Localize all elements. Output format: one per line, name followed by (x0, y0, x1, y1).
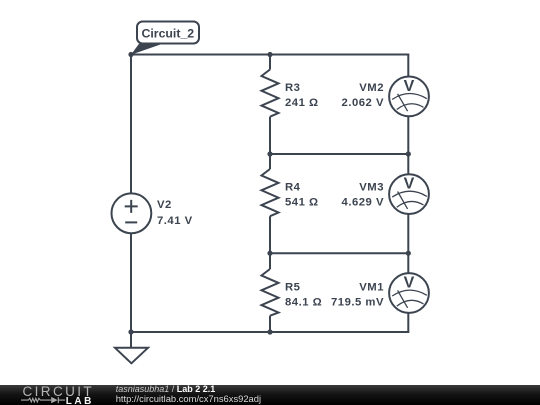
label R3 value (285, 82, 319, 109)
resistor R3 (262, 70, 279, 117)
wire VM3 bottom stub (407, 214, 409, 253)
svg-text:541 Ω: 541 Ω (285, 197, 319, 209)
svg-text:R3: R3 (285, 82, 300, 94)
svg-text:LAB: LAB (66, 396, 94, 405)
wire R3 bottom stub (269, 117, 271, 154)
footer logo CIRCUIT (23, 384, 95, 399)
wire middle rail 1 (between row1 and row2) (270, 153, 408, 155)
voltmeter VM2 (389, 77, 429, 117)
wire VM3 top stub (407, 154, 409, 174)
svg-text:2.062 V: 2.062 V (342, 97, 384, 109)
svg-text:84.1 Ω: 84.1 Ω (285, 297, 322, 309)
junction node R3/R4 rail left (267, 151, 272, 156)
footer username / title (116, 384, 216, 394)
svg-text:VM3: VM3 (359, 182, 384, 194)
wire bottom rail (131, 331, 409, 333)
label VM1 value (331, 282, 384, 309)
svg-text:R5: R5 (285, 282, 300, 294)
footer bar (0, 385, 540, 405)
wire middle rail 2 (between row2 and row3) (270, 252, 408, 254)
svg-text:VM2: VM2 (359, 82, 384, 94)
svg-text:R4: R4 (285, 182, 301, 194)
resistor R4 (262, 169, 279, 216)
svg-text:V: V (404, 78, 415, 95)
svg-text:V: V (404, 176, 415, 193)
svg-text:719.5 mV: 719.5 mV (331, 297, 384, 309)
wire VM2 bottom stub (407, 116, 409, 154)
svg-text:Circuit_2: Circuit_2 (142, 27, 195, 41)
junction node R3 top (267, 52, 272, 57)
junction node ground/bottom-left (128, 329, 133, 334)
junction node VM3/VM1 rail right (406, 251, 411, 256)
wire R4 bottom stub (269, 216, 271, 253)
label R5 value (285, 282, 322, 309)
voltmeter VM1 (389, 273, 429, 313)
svg-text:VM1: VM1 (359, 282, 384, 294)
svg-text:7.41 V: 7.41 V (157, 215, 193, 227)
junction node top-left (128, 52, 133, 57)
footer logo resistor-diode glyph (21, 397, 65, 403)
wire VM2 top stub (407, 55, 409, 77)
wire R5 bottom stub (269, 316, 271, 332)
wire ground stub (130, 332, 132, 348)
svg-text:4.629 V: 4.629 V (342, 197, 384, 209)
voltage source V2 (111, 193, 151, 233)
svg-text:241 Ω: 241 Ω (285, 97, 319, 109)
wire R3 top stub (269, 55, 271, 70)
svg-text:http://circuitlab.com/cx7ns6xs: http://circuitlab.com/cx7ns6xs92adj (116, 393, 261, 404)
resistor R5 (262, 269, 279, 316)
svg-text:V: V (404, 275, 415, 292)
wire VM1 bottom stub (407, 313, 409, 332)
wire top rail (131, 54, 409, 56)
wire left vertical lower (V2 bottom to bottom rail) (130, 233, 132, 332)
net label Circuit_2 (131, 22, 199, 55)
wire VM1 top stub (407, 253, 409, 273)
label V2 value (157, 199, 193, 227)
junction node R5 bottom (267, 329, 272, 334)
wire R5 top stub (269, 253, 271, 269)
footer url (116, 393, 261, 404)
voltmeter VM3 (389, 174, 429, 214)
wire left vertical upper (node to V2 top) (130, 55, 132, 194)
footer logo LAB (66, 396, 94, 405)
label VM2 value (342, 82, 384, 109)
svg-text:V2: V2 (157, 199, 172, 211)
junction node VM2/VM3 rail right (406, 151, 411, 156)
label R4 value (285, 182, 319, 209)
label VM3 value (342, 182, 384, 209)
junction node R4/R5 rail left (267, 251, 272, 256)
ground (115, 348, 148, 364)
wire R4 top stub (269, 154, 271, 169)
